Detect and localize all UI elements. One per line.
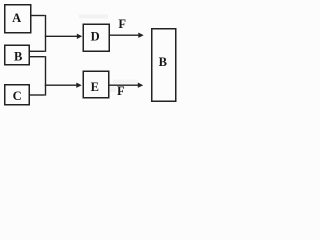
- svg-text:F: F: [117, 84, 125, 98]
- svg-text:A: A: [12, 11, 21, 25]
- svg-text:B: B: [159, 55, 167, 69]
- svg-text:D: D: [91, 30, 100, 44]
- svg-text:B: B: [14, 50, 22, 64]
- svg-text:F: F: [118, 17, 126, 31]
- svg-text:E: E: [91, 80, 99, 94]
- svg-text:C: C: [13, 89, 22, 103]
